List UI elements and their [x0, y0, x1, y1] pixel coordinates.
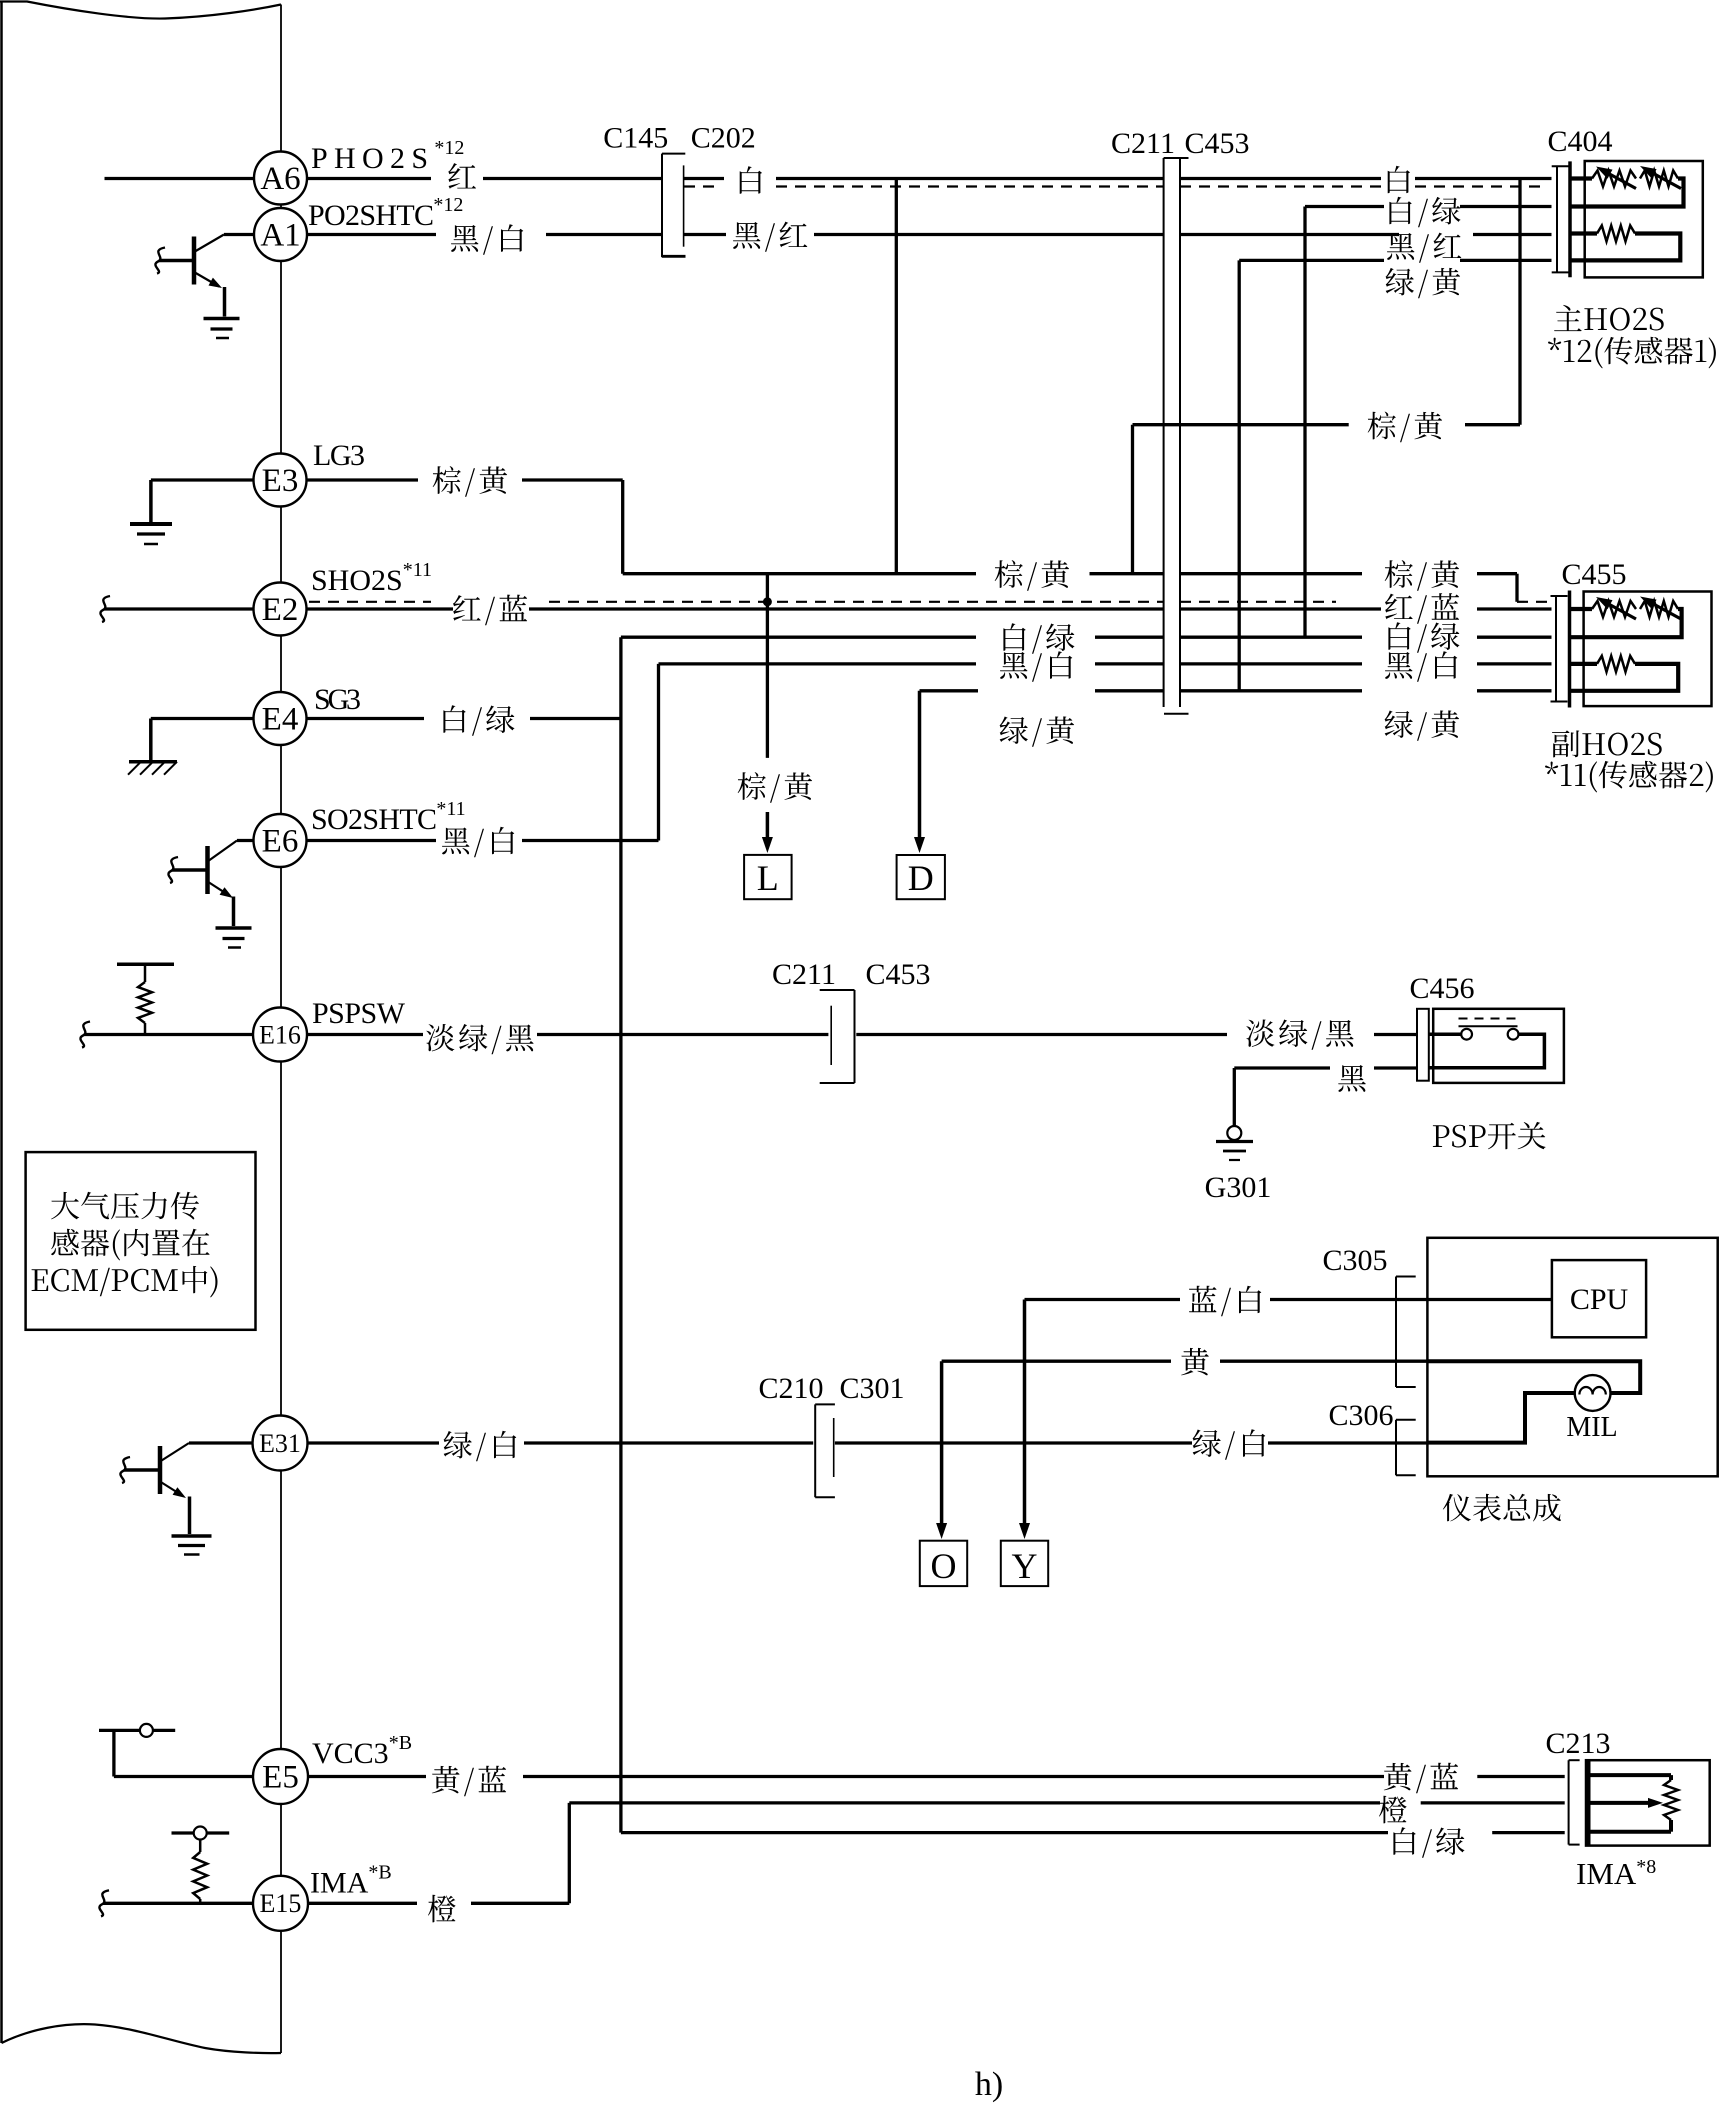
transistor Q2 base lead: [172, 868, 208, 872]
pin E16: [253, 1008, 307, 1062]
IMA potentiometer element: [1591, 1773, 1672, 1777]
transistor Q1 emitter lead down: [223, 287, 227, 317]
wire colour label yellow/blue (C213): [1384, 1763, 1458, 1794]
resistor pull-up at E15 with terminal circle: [193, 1852, 207, 1899]
transistor Q3 emitter with arrow: [160, 1482, 183, 1497]
ground G301 terminal circle: [1227, 1126, 1241, 1140]
wire blue/white drop arrow to Y reference: [1023, 1300, 1027, 1527]
wire white/green bus y=637.2: [621, 636, 976, 639]
wire colour label orange (C213): [1379, 1796, 1407, 1824]
wire colour label white/green (C213): [1393, 1827, 1464, 1857]
wire SHO2S shield (dashed) y=601.8: [309, 601, 431, 603]
transistor Q2 base bar: [205, 846, 210, 894]
wire upper brown/yellow link y=424.7: [1133, 423, 1349, 426]
wire brown/yellow bus corner down to shield dashed into C455: [1515, 574, 1518, 602]
wire E31: transistor collector to pin E31: [189, 1441, 253, 1444]
main HO2S heater variable arrows: [1604, 171, 1636, 189]
wire colour label yellow/blue (E5): [432, 1766, 506, 1797]
wire SHO2S: stub left of pin E2 with continuation squiggle: [104, 607, 254, 610]
svg-text:C213: C213: [1545, 1727, 1610, 1760]
wire SG3: E4 right white/green to long riser x=621: [307, 717, 425, 720]
note text line3: [32, 1266, 218, 1298]
secondary HO2S sensing element (rows red-blue / white-green): [1571, 607, 1592, 611]
connector C211/C453 (PSPSW row): [854, 990, 856, 1083]
connector C306: [1395, 1420, 1397, 1476]
wire colour label white/green (C455): [1388, 622, 1459, 652]
CPU box inside cluster: [1552, 1260, 1646, 1337]
wire brown/yellow bus y=573.7: [623, 572, 976, 575]
wire PO2SHTC: C202 to C404, black/red segment: [684, 233, 726, 236]
wire colour label red/blue (C455): [1385, 593, 1459, 624]
connector C213: [1568, 1760, 1570, 1844]
svg-text:E4: E4: [262, 702, 299, 738]
wire SHO2S: red/blue solid y=609: [307, 607, 454, 610]
off-page reference L box with brown/yellow arrow: [766, 812, 770, 840]
off-page reference D box: [914, 837, 925, 853]
svg-text:C453: C453: [865, 958, 930, 991]
transistor Q3 collector: [160, 1443, 189, 1462]
transistor Q1 collector: [194, 235, 224, 253]
wire PHO2S: stub left of pin A6: [105, 177, 255, 180]
svg-text:C210: C210: [758, 1372, 823, 1405]
svg-text:O: O: [931, 1546, 957, 1586]
svg-text:C306: C306: [1328, 1399, 1393, 1432]
wire colour label brown/yellow (upper link): [1368, 412, 1442, 443]
svg-text:C455: C455: [1561, 558, 1626, 591]
svg-text:CPU: CPU: [1570, 1283, 1629, 1316]
transistor Q1 driver at A1 (base squiggle): [155, 248, 165, 274]
svg-text:E31: E31: [259, 1429, 301, 1458]
transistor Q2 emitter with arrow: [208, 882, 231, 897]
wire C404 green/yellow row y=260.4 with riser x=1239: [1239, 259, 1384, 262]
wire SO2SHTC: transistor collector to pin E6: [237, 839, 254, 842]
wire MIL return green/white inside cluster: [1427, 1393, 1574, 1443]
wire colour label green/white (E31): [444, 1431, 517, 1461]
wire PSPSW: stub left of pin E16 with squiggle: [84, 1033, 253, 1036]
pin E15: [253, 1876, 308, 1931]
svg-text:LG3: LG3: [313, 439, 365, 472]
wire SO2SHTC: E6 right black/white to corner x=658: [307, 839, 437, 842]
svg-text:C305: C305: [1322, 1244, 1387, 1277]
wire colour label blue/white (C305): [1189, 1286, 1261, 1317]
svg-text:L: L: [757, 858, 779, 898]
svg-text:A1: A1: [260, 218, 300, 254]
label PSP switch: [1433, 1122, 1546, 1149]
transistor Q3 emitter lead down: [188, 1497, 192, 1535]
wire yellow drop arrow to O reference: [940, 1361, 944, 1526]
wire green/white C301 to C306: [835, 1441, 1192, 1444]
wire PHO2S: A6 to C145, red segment: [307, 177, 431, 180]
wire colour label green/yellow (C404): [1386, 268, 1461, 298]
svg-text:E16: E16: [259, 1020, 301, 1049]
svg-text:C453: C453: [1184, 127, 1249, 160]
PSP switch output path to black wire: [1429, 1034, 1545, 1068]
wire colour label brown/yellow (E3): [433, 466, 507, 497]
transistor Q2 driver at E6 (base squiggle): [168, 857, 178, 883]
ground G301 bars: [1216, 1140, 1253, 1143]
sensor voltage tap bar with terminal circle at E5: [99, 1729, 175, 1732]
wire colour label light green/black (E16): [426, 1024, 533, 1054]
svg-text:C456: C456: [1409, 972, 1474, 1005]
label *11 (sensor 2): [1545, 761, 1713, 793]
transistor Q2 collector: [208, 841, 238, 862]
svg-text:C145: C145: [603, 122, 668, 155]
wire colour label white (C202): [740, 166, 762, 194]
transistor Q2 emitter lead down: [232, 897, 236, 927]
ECM/PCM module boundary - main vertical pin rail: [280, 5, 282, 2054]
connector C456: [1417, 1009, 1429, 1081]
wire colour label green/white (C306): [1193, 1429, 1266, 1459]
secondary HO2S sensing variable arrows: [1604, 602, 1636, 620]
transistor Q3 driver at E31 (base squiggle): [120, 1457, 130, 1483]
chassis ground at E4 (SG3): [129, 760, 177, 764]
connector C145/C202 between A-rows: [661, 154, 663, 258]
svg-text:D: D: [908, 858, 934, 898]
wire colour label red (A6): [448, 163, 476, 189]
wire brown/yellow riser x=1132 up to upper link: [1131, 425, 1134, 574]
main HO2S sensing element (rows black-red / green-yellow): [1572, 231, 1598, 235]
pin E2: [254, 583, 307, 636]
ECM/PCM module boundary - top torn edge: [0, 2, 281, 19]
wire blue/white y=1299.5 from Y corner to C305: [1025, 1298, 1181, 1301]
connector C455: [1551, 595, 1568, 597]
label secondary HO2S: [1552, 730, 1662, 757]
secondary HO2S heater element (rows black-white / green-yellow): [1571, 662, 1597, 666]
svg-text:C202: C202: [691, 122, 756, 155]
wire PHO2S: C202 to C404, white segment: [684, 177, 724, 180]
svg-text:C211: C211: [772, 958, 836, 991]
connector C404: [1552, 165, 1569, 167]
wire LG3: E3 right, brown/yellow to corner x=622: [307, 478, 419, 481]
pin A6: [254, 152, 307, 205]
wire colour label green/yellow (bus): [1000, 716, 1075, 746]
wire green/yellow drop to D reference at x=919: [918, 691, 922, 843]
wire colour label brown/yellow (C455): [1385, 560, 1459, 591]
wire C404 white/green row y=206.5 with riser x=1305: [1305, 205, 1384, 208]
svg-text:PSPSW: PSPSW: [312, 997, 406, 1030]
svg-text:C404: C404: [1547, 125, 1612, 158]
connector C305: [1395, 1277, 1397, 1388]
wire colour label red/blue (E2): [453, 595, 527, 626]
ground at transistor Q3: [172, 1534, 212, 1538]
ground at E3 (LG3): [130, 522, 172, 526]
wire yellow inside cluster to MIL lamp: [1427, 1361, 1640, 1393]
svg-text:E6: E6: [262, 824, 299, 860]
svg-text:C301: C301: [839, 1372, 904, 1405]
PSP switch box: [1433, 1009, 1564, 1083]
wire colour label light green/black (PSP): [1246, 1020, 1353, 1050]
connector C210/C301: [814, 1404, 816, 1497]
off-page reference O box: [920, 1541, 967, 1586]
note text line2: [51, 1229, 209, 1261]
svg-text:G301: G301: [1205, 1171, 1272, 1204]
wire VCC3: pin E5 left stub to sensor supply tap: [114, 1775, 253, 1778]
secondary HO2S sensor box: [1584, 592, 1712, 707]
wire PSPSW: E16 right light-green/black: [307, 1033, 423, 1036]
barometric pressure sensor note box: [26, 1152, 256, 1330]
wire colour label white/green (E4): [443, 705, 514, 735]
wire PSP switch black return to G301: [1234, 1066, 1330, 1069]
wire colour label black (PSP): [1338, 1065, 1366, 1092]
svg-text:SG3: SG3: [314, 683, 361, 716]
svg-text:C211: C211: [1111, 127, 1175, 160]
wire long white/green riser x=621 down to IMA row: [619, 637, 622, 1832]
wire IMA: stub left of pin E15 with squiggle: [103, 1902, 253, 1905]
svg-text:A6: A6: [260, 161, 300, 197]
PSP switch contacts and blade: [1429, 1032, 1461, 1036]
wire blue/white into CPU inside cluster: [1427, 1298, 1552, 1301]
svg-text:E5: E5: [262, 1760, 299, 1796]
junction dot: shield dashed to brown/yellow drop: [763, 597, 772, 606]
ground at transistor Q2: [216, 926, 252, 930]
note text line1: [51, 1192, 199, 1220]
connector C211/C453 main harness: [1163, 158, 1165, 707]
wire colour label black/white (E6): [442, 827, 514, 857]
wire black/white bus y=663.9: [659, 662, 977, 665]
svg-text:E15: E15: [260, 1889, 302, 1918]
resistor pull-up at E16: [117, 962, 174, 966]
off-page reference Y box: [1001, 1541, 1048, 1586]
wire PO2SHTC: transistor collector to pin A1: [224, 233, 254, 236]
wire LG3: pin E3 left stub to ground: [151, 478, 254, 481]
wire colour label black/white (C455): [1385, 651, 1457, 681]
pin E4: [254, 692, 307, 745]
wire colour label brown/yellow (L drop): [738, 772, 812, 803]
wire colour label white (C404): [1388, 166, 1410, 193]
ground at transistor Q1: [204, 317, 240, 321]
wire colour label brown/yellow (bus): [995, 560, 1069, 591]
wire colour label black/white (bus): [1000, 651, 1072, 681]
wire colour label black/red (C404): [1387, 233, 1461, 263]
pin E5: [253, 1749, 308, 1804]
svg-text:Y: Y: [1012, 1546, 1038, 1586]
instrument cluster box: [1427, 1238, 1717, 1477]
transistor Q3 base bar: [158, 1446, 163, 1494]
wire shield (dashed) along PHO2S white wire: [684, 185, 722, 187]
wire colour label orange (E15): [428, 1895, 456, 1923]
svg-text:h): h): [975, 2066, 1003, 2103]
svg-text:MIL: MIL: [1566, 1412, 1617, 1443]
main HO2S heater element (rows white / white-green): [1572, 176, 1593, 180]
wire yellow y=1361.2 from O corner to C305: [942, 1360, 1171, 1363]
wire SG3: pin E4 left stub to chassis ground: [151, 717, 254, 720]
pin E3: [254, 454, 307, 507]
wire IMA: E15 right orange, corner up to y=1802.9, to C213: [308, 1902, 418, 1905]
wire shield drain at x=1520 from white wire down to upper brown/yellow link: [1518, 179, 1521, 425]
wire green/yellow bus y=690.8: [920, 689, 979, 692]
main HO2S sensor box: [1585, 161, 1703, 277]
transistor Q3 base lead: [124, 1468, 160, 1472]
wire colour label black/red (C202): [733, 222, 807, 252]
svg-text:E2: E2: [262, 592, 299, 628]
wire VCC3: E5 right yellow/blue to C213: [308, 1775, 426, 1778]
wire PO2SHTC: A1 to C145, black/white segment: [307, 233, 436, 236]
wire colour label green/yellow (C455): [1385, 710, 1460, 740]
pin E31: [253, 1416, 308, 1471]
label instrument cluster: [1443, 1494, 1561, 1522]
wire colour label white/green (C404): [1389, 197, 1460, 227]
IMA wiper arrow (orange): [1591, 1801, 1651, 1805]
MIL indicator lamp: [1575, 1375, 1611, 1411]
pin A1: [254, 208, 307, 261]
wire colour label yellow (C305): [1181, 1348, 1209, 1375]
ECM/PCM module boundary - left edge vertical: [0, 2, 3, 2044]
svg-text:E3: E3: [262, 463, 299, 499]
wire E31 right green/white to C210/C301: [308, 1441, 440, 1444]
wire colour label black/white (A1): [451, 224, 523, 254]
transistor Q1 emitter with arrow: [194, 272, 219, 287]
transistor Q1 base lead: [159, 259, 194, 263]
label *12 (sensor 1): [1548, 337, 1716, 369]
transistor Q1 base bar: [192, 237, 197, 285]
pin E6: [254, 814, 307, 867]
ECM/PCM module boundary - bottom torn edge: [2, 2024, 282, 2053]
IMA sensor box: [1586, 1760, 1710, 1845]
wire colour label white/green (bus): [1003, 623, 1074, 653]
label main HO2S: [1554, 305, 1664, 331]
wire white/green bottom row y=1832.6 to C213: [621, 1831, 1388, 1834]
wire shield drain at x=896 from white wire down to brown/yellow bus: [895, 179, 898, 574]
wire brown/yellow drop to L reference at x=767: [766, 574, 769, 758]
